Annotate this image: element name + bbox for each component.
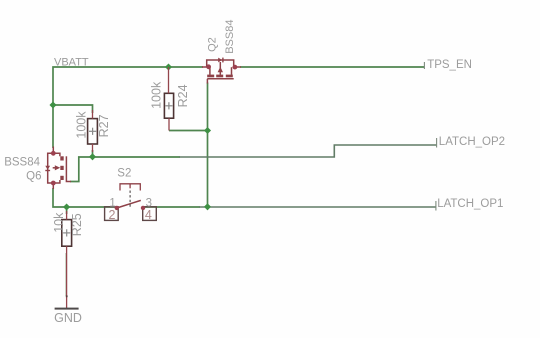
svg-text:S2: S2 [117, 167, 131, 179]
svg-text:LATCH_OP1: LATCH_OP1 [437, 198, 503, 210]
svg-text:4: 4 [145, 208, 152, 222]
svg-text:R27: R27 [97, 114, 111, 137]
svg-text:GND: GND [54, 311, 82, 325]
svg-text:Q2: Q2 [207, 37, 219, 52]
svg-text:10k: 10k [52, 212, 66, 233]
svg-text:100k: 100k [149, 81, 163, 109]
svg-text:BSS84: BSS84 [4, 157, 40, 169]
svg-text:TPS_EN: TPS_EN [427, 59, 472, 71]
svg-text:R25: R25 [70, 213, 84, 236]
svg-text:100k: 100k [75, 111, 89, 139]
svg-text:R24: R24 [176, 84, 190, 107]
svg-text:LATCH_OP2: LATCH_OP2 [439, 136, 505, 148]
svg-text:VBATT: VBATT [54, 57, 89, 69]
svg-text:Q6: Q6 [26, 170, 41, 182]
svg-text:BSS84: BSS84 [224, 20, 236, 54]
svg-text:2: 2 [109, 208, 116, 222]
